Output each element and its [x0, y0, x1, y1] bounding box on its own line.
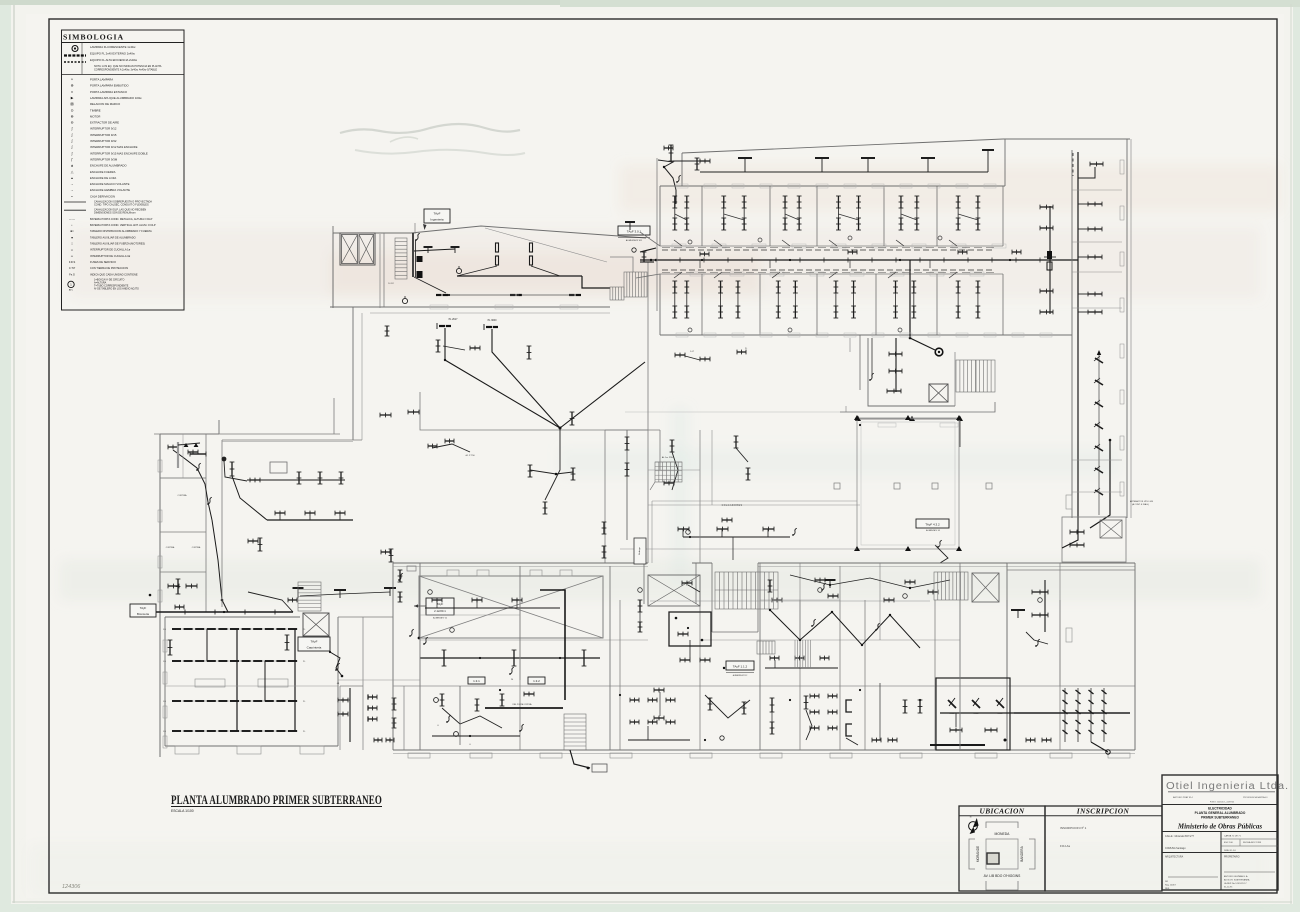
mid column lamps low	[603, 522, 605, 534]
svg-text:ATC: ATC	[69, 288, 74, 291]
svg-text:INTERRUPTOR 9/12 MAS ENCHUFE: INTERRUPTOR 9/12 MAS ENCHUFE	[90, 145, 138, 149]
workshop elevator	[303, 613, 329, 636]
bottom band left lamps	[399, 570, 401, 582]
mid room switches	[399, 573, 403, 580]
svg-text:AV. LIB BDO O'HIGGINS: AV. LIB BDO O'HIGGINS	[984, 874, 1022, 878]
svg-text:SIMBOLOGIA: SIMBOLOGIA	[63, 33, 124, 42]
wing corridor drop wires	[699, 260, 701, 268]
title block outline	[1162, 775, 1278, 890]
svg-text:PL: PL	[745, 348, 747, 350]
svg-text:EQUIPO FL 2x40 EXTERNO 2x40w: EQUIPO FL 2x40 EXTERNO 2x40w	[90, 52, 136, 56]
br lower pair lamps	[1026, 739, 1035, 741]
room 800 lamps low	[805, 696, 807, 709]
upper-left block top wall	[411, 226, 646, 238]
bottom band corridor wall	[393, 562, 648, 564]
left corridor feeder	[152, 611, 293, 613]
upper rooms circled numbers	[688, 240, 692, 244]
room B bottom pair	[374, 739, 382, 741]
strip wall y601	[650, 600, 930, 602]
rooms 760-960 upper wires	[770, 610, 920, 648]
svg-text:ENCHUFE HEMBRA VOLANTE: ENCHUFE HEMBRA VOLANTE	[90, 188, 130, 192]
svg-text:P.L: P.L	[303, 701, 305, 703]
annex motor circle	[935, 348, 943, 356]
corridor double dash upper	[662, 247, 994, 249]
svg-text:▶: ▶	[71, 96, 74, 100]
legend box SIMBOLOGIA	[62, 30, 185, 310]
svg-text:▲: ▲	[70, 164, 73, 168]
svg-text:INTERRUPTOR 9/3M: INTERRUPTOR 9/3M	[90, 157, 118, 161]
annex lamp wire	[895, 338, 897, 392]
svg-text:⊖: ⊖	[71, 121, 74, 125]
corridor lamp marks	[184, 610, 186, 615]
svg-text:CALLE : Morandé 80/71/77: CALLE : Morandé 80/71/77	[1165, 835, 1195, 838]
svg-text:P.L: P.L	[303, 629, 305, 631]
svg-text:PLANTA GENERAL ALUMBRADO: PLANTA GENERAL ALUMBRADO	[1195, 811, 1246, 815]
right column lamp string	[1095, 358, 1103, 363]
rooms mid lamps	[815, 579, 825, 581]
wire net mid	[790, 575, 950, 588]
upper-left stairs	[395, 238, 407, 279]
svg-text:31-12-95: 31-12-95	[1224, 887, 1233, 889]
legend lamp circle symbol	[72, 46, 78, 52]
center-left feeder	[267, 519, 353, 521]
svg-text:→: →	[70, 182, 73, 186]
block lamp dark pairs	[436, 294, 442, 296]
annex drop wire	[910, 260, 935, 350]
right wing low walls	[1007, 562, 1060, 564]
mid room lamp vertical	[528, 346, 530, 359]
left wing inner wall	[205, 434, 207, 612]
svg-text:EXTRACTOR DE AIRE: EXTRACTOR DE AIRE	[90, 121, 119, 125]
upper band lamps	[674, 196, 676, 208]
svg-text:TAyF 3.0.1: TAyF 3.0.1	[627, 229, 642, 233]
bodega vertical label	[634, 538, 646, 564]
mid room lamp right	[571, 412, 573, 425]
left of wing small syms	[625, 221, 635, 223]
svg-text:TAyF: TAyF	[437, 602, 444, 606]
under-hall lamp 3	[583, 650, 585, 666]
center-left small rect	[270, 462, 287, 473]
svg-text:TAyF: TAyF	[140, 606, 147, 610]
top strip lamps	[738, 157, 752, 159]
right block outline	[1004, 139, 1006, 186]
legend canalizacion entries	[64, 201, 86, 203]
svg-text:⊗: ⊗	[71, 114, 74, 118]
wing left end cluster	[670, 145, 672, 161]
svg-text:ENCHUFE DE ALUMBRADO: ENCHUFE DE ALUMBRADO	[90, 164, 127, 168]
hall top pilaster marks	[447, 570, 459, 576]
svg-text:■□: ■□	[70, 230, 74, 233]
map bottom bracket	[986, 881, 1018, 890]
mid rooms circled numbers	[428, 590, 433, 595]
scatter lamp pair	[428, 445, 437, 447]
workshop fixture chain 2	[172, 660, 298, 662]
block circle low	[402, 298, 407, 303]
left lower rooms top walls	[338, 679, 420, 681]
svg-text:ARQUITECTURA: ARQUITECTURA	[1165, 856, 1184, 859]
north wing corridor walls	[660, 245, 1003, 247]
svg-text:INTERRUPTOR DE CUCHILLA 3ø: INTERRUPTOR DE CUCHILLA 3ø	[90, 254, 131, 258]
north wing main outline	[660, 185, 1005, 187]
svg-text:TAyF 1.1.2: TAyF 1.1.2	[733, 664, 748, 668]
taller room circled syms	[434, 698, 439, 703]
svg-text:ƒ: ƒ	[71, 157, 73, 161]
workshop fixture chain 3	[172, 700, 298, 702]
right connector wires	[1062, 518, 1078, 548]
svg-text:△: △	[71, 170, 74, 174]
room A wire	[349, 688, 351, 742]
pencil smudge 2	[355, 150, 525, 155]
room 865 vertical wire	[879, 683, 881, 740]
north wing top strip wire	[700, 171, 988, 173]
under-hall lamp 2	[513, 650, 515, 666]
wing left slant wall	[640, 232, 660, 246]
br upper room wire	[1044, 580, 1046, 632]
colgadores lamp 1	[678, 528, 689, 530]
map right bracket	[1029, 839, 1035, 869]
compass	[969, 822, 978, 831]
svg-text:MONEDA: MONEDA	[995, 832, 1011, 836]
below-wing lamp cluster	[675, 354, 685, 356]
mid stairs lower hatch	[757, 641, 775, 654]
corridor dashed lines	[662, 249, 994, 251]
upper of corridor lamps	[334, 589, 346, 591]
svg-text:DR: DR	[1165, 881, 1169, 883]
annex stairs	[956, 360, 995, 392]
workshop fixture chain 1	[172, 628, 298, 630]
pencil smudge 3	[390, 137, 418, 142]
wing room wires upper	[674, 240, 682, 246]
left wing wire low	[212, 520, 228, 612]
svg-text:AL 1er PISO: AL 1er PISO	[662, 456, 674, 459]
svg-text:PORTA LAMPARA EMBUTIDO: PORTA LAMPARA EMBUTIDO	[90, 84, 129, 88]
svg-text:Ingenieria: Ingenieria	[430, 218, 444, 222]
left wing lamps r2	[168, 585, 179, 587]
wing annex left wall lower	[845, 406, 847, 412]
wing bottom pilasters	[676, 333, 688, 337]
left wing feeder lamps	[298, 472, 300, 484]
svg-text:P.L: P.L	[303, 731, 305, 733]
colgadores lamp 3	[763, 528, 774, 530]
br block lamps	[1070, 531, 1084, 533]
svg-text:UBICACION: UBICACION	[979, 807, 1024, 816]
svg-text:Otiel Ingenieria Ltda.: Otiel Ingenieria Ltda.	[1166, 781, 1289, 792]
corridor upper symbols	[248, 592, 293, 612]
wing top pilasters corridor	[672, 244, 686, 248]
br lower feeder	[1014, 712, 1130, 714]
block L wall right	[610, 257, 633, 272]
rooms separator	[392, 563, 394, 750]
ramp hall with X	[419, 576, 603, 638]
upper-left elevator double	[340, 233, 375, 265]
left wing wall extension	[221, 560, 223, 607]
room 1050 lamps	[1040, 206, 1053, 208]
junction dots scatter	[701, 259, 703, 261]
svg-text:CORRESPONDIENTE A 2x40w, 3x40w: CORRESPONDIENTE A 2x40w, 3x40w, 4x40w S/…	[94, 68, 157, 71]
bottom band upper-mid walls	[519, 566, 521, 680]
mid stairs down	[564, 714, 586, 750]
second core elevator	[972, 573, 999, 602]
svg-text:INDICA QUE CADA UNIDAD CONTIEN: INDICA QUE CADA UNIDAD CONTIENE	[90, 272, 138, 276]
courtyard right riser	[959, 419, 961, 447]
rooms 760-960 upper switches	[812, 619, 816, 626]
workshop top wall extension	[363, 616, 393, 618]
svg-text:▪: ▪	[72, 224, 73, 227]
left wing feeder 480	[224, 461, 247, 481]
svg-text:ʃ: ʃ	[71, 127, 73, 131]
svg-text:Nº DE TABLERO EN LOS ANEXO ADJ: Nº DE TABLERO EN LOS ANEXO ADJTO	[94, 286, 139, 290]
room 770 lamps low	[771, 698, 773, 712]
paper edge lines	[13, 5, 15, 903]
net junction dots	[799, 639, 801, 641]
workshop lamps vertical	[169, 640, 171, 655]
annex bottom dots	[855, 416, 861, 421]
block right stairs hatch	[624, 272, 647, 297]
bottom rooms top wall	[393, 685, 1135, 687]
svg-text:x: x	[71, 90, 73, 94]
mid room cluster wires	[425, 607, 560, 609]
workshop chain risers	[236, 629, 238, 731]
title block divider 1	[1162, 804, 1278, 806]
label TAyF 3.0.1	[618, 226, 650, 235]
bottom band divider extension	[519, 566, 521, 600]
right block lamps	[1088, 203, 1102, 205]
center-left lamps	[275, 512, 285, 514]
strip lamps	[682, 582, 692, 584]
annex dot wire	[858, 418, 960, 420]
below-wall wire	[570, 750, 590, 768]
dark room below elevator	[669, 612, 711, 646]
taller room lamps	[441, 694, 443, 706]
upper-left block inner slant	[485, 228, 607, 262]
svg-text:PL 3000: PL 3000	[488, 319, 497, 322]
courtyard inner rect	[861, 422, 955, 545]
svg-text:COND. TIPO CALSEC, CONDUIT O F: COND. TIPO CALSEC, CONDUIT O FLEXIBLES	[94, 203, 149, 206]
svg-text:ʃ: ʃ	[71, 133, 73, 137]
room 700 wires	[705, 695, 750, 718]
bottom band mid wall	[420, 639, 648, 641]
right block top lamp wire	[1078, 167, 1095, 178]
workshop stairs	[298, 582, 321, 611]
colgadores lamp 2	[717, 528, 728, 530]
lower band room dividers	[701, 274, 703, 335]
svg-text:DIMENSIONES SON DE REALMxxm: DIMENSIONES SON DE REALMxxm	[94, 212, 136, 215]
column marker squares	[834, 483, 840, 489]
label 1.3.1	[468, 677, 485, 684]
upper-left block inner walls	[379, 234, 381, 308]
svg-text:ʃ: ʃ	[71, 145, 73, 149]
left wing enchufe triangles	[184, 443, 189, 447]
room 650 bottom lamps	[654, 689, 664, 691]
block bottom pilasters	[430, 305, 448, 309]
annex left wall	[859, 335, 861, 390]
center-left wire	[232, 476, 267, 520]
svg-text:COLGADORES: COLGADORES	[722, 504, 743, 507]
left block top wall long	[154, 433, 340, 435]
mid column wires	[604, 430, 606, 563]
dark room bottom bar	[930, 744, 985, 746]
svg-text:ALIMENTA Nº 43: ALIMENTA Nº 43	[926, 529, 940, 532]
middle rooms 700-860	[711, 430, 713, 505]
bottom wall pilasters	[408, 753, 430, 758]
svg-text:INTERRUPTOR 9/32: INTERRUPTOR 9/32	[90, 139, 117, 143]
wing left entry marks	[640, 248, 656, 252]
rooms 760-840 mid row lamps	[770, 657, 779, 659]
svg-text:TIMBRE: TIMBRE	[90, 108, 101, 112]
svg-text:REF.: REF.	[1165, 888, 1170, 890]
room 620 wire	[628, 739, 690, 741]
colgadores switch	[793, 528, 797, 535]
workshop fixture chain 4	[172, 730, 298, 732]
under-hall switch	[510, 667, 514, 674]
svg-text:CAJA DERIVACION: CAJA DERIVACION	[90, 194, 115, 198]
annex stairwell walls	[954, 352, 956, 406]
corridor junction symbols	[700, 253, 709, 255]
block circled symbol	[456, 268, 461, 273]
stairs to first floor	[655, 462, 682, 482]
under-hall lamp 1	[443, 650, 445, 666]
left wing lamp bar long	[190, 453, 206, 455]
map building square	[987, 853, 999, 864]
workshop left pilasters	[163, 640, 167, 652]
courtyard corner-dot rect	[857, 418, 959, 549]
br lower room chains	[1064, 688, 1066, 742]
stain band middle	[560, 448, 1120, 476]
rooms 760-960 mid walls	[799, 563, 801, 640]
svg-text:FONO: 2225013 - 2228745: FONO: 2225013 - 2228745	[1210, 802, 1235, 804]
svg-text:CORTINA: CORTINA	[192, 546, 201, 549]
svg-text:Fe.G: Fe.G	[69, 272, 75, 276]
bottom right block outline	[1007, 569, 1135, 571]
second core stairs	[934, 572, 968, 600]
svg-text:COMUNA Santiago: COMUNA Santiago	[1165, 847, 1186, 850]
svg-text:PROVIDENCIA SANTIAGO: PROVIDENCIA SANTIAGO	[1243, 796, 1268, 799]
left wing lamps r1	[168, 446, 178, 448]
room 1050 riser wire	[1049, 206, 1051, 314]
left lower rooms walls	[339, 686, 341, 750]
br lower diag wire	[1091, 742, 1108, 752]
svg-text:ALIMENTA Nº 112: ALIMENTA Nº 112	[733, 674, 748, 677]
left wing timbre circle	[222, 457, 227, 462]
label 1.3.2	[528, 677, 545, 684]
svg-text:ELECTRICIDAD: ELECTRICIDAD	[1208, 807, 1232, 811]
wing annex outline	[868, 338, 955, 406]
svg-text:MORANDE: MORANDE	[976, 846, 980, 862]
annex left wire	[871, 338, 873, 378]
svg-text:RELACION DE MARCO: RELACION DE MARCO	[90, 102, 121, 106]
map left bracket	[969, 839, 975, 869]
svg-text:LAMPARA APLIQUE ALUMBRADO 100w: LAMPARA APLIQUE ALUMBRADO 100w	[90, 96, 143, 100]
svg-text:FUSES DE SERVICIO: FUSES DE SERVICIO	[90, 260, 116, 264]
scatter lamps mid	[529, 465, 531, 477]
svg-text:INSCRIPCION: INSCRIPCION	[1076, 807, 1130, 816]
dark room lamps2	[950, 729, 962, 731]
courtyard bottom wire	[620, 548, 857, 550]
svg-text:PL 2617: PL 2617	[449, 318, 458, 321]
left wing pencil bundle	[177, 442, 179, 468]
wing left outer wall	[656, 158, 658, 311]
svg-text:RIEL PORTA CORTINA: RIEL PORTA CORTINA	[513, 703, 533, 706]
svg-text:ESCALA 1/100: ESCALA 1/100	[171, 809, 194, 813]
svg-text:LA REP. No 9.981.357-7: LA REP. No 9.981.357-7	[1224, 882, 1247, 885]
svg-text:⊙: ⊙	[71, 108, 74, 112]
corridor feeder wire	[662, 259, 1078, 261]
upper-left block left wall	[332, 226, 334, 308]
annex elevator	[929, 384, 948, 402]
label TAyF 4.3.2	[916, 519, 949, 528]
legend dashed bar symbol	[64, 61, 86, 63]
riser tableros	[417, 256, 423, 262]
under-hall feeder wire	[420, 657, 600, 659]
al1er crosshatch	[655, 461, 682, 463]
right block feeder	[1077, 152, 1079, 518]
br upper room left lamp	[1011, 609, 1025, 611]
top edge shading	[0, 0, 1300, 5]
room 800-840 I-beam grid	[810, 695, 819, 697]
right wall door bumps	[1066, 495, 1072, 509]
svg-text:→: →	[70, 188, 73, 192]
svg-text:(A CONT. E DIAG.): (A CONT. E DIAG.)	[1132, 503, 1149, 506]
bottom outer wall	[393, 749, 1135, 751]
UBICACION box	[959, 806, 1045, 891]
riser switch	[416, 233, 420, 240]
wing bottom small syms	[737, 351, 746, 353]
dark room feeder	[940, 712, 1130, 714]
mid room dark L wire	[540, 590, 565, 700]
room B E-symbols	[368, 696, 377, 698]
upper mid wire from block	[545, 428, 560, 500]
dark room angled lamps	[948, 700, 956, 708]
bottom room 620 top lamps	[639, 600, 641, 612]
svg-text:PORTA LAMPARA: PORTA LAMPARA	[90, 78, 113, 82]
wing room wires lower	[674, 272, 682, 278]
svg-text:INTERRUPTOR 9/15 MAS ENCHUFE D: INTERRUPTOR 9/15 MAS ENCHUFE DOBLE	[90, 151, 148, 155]
stair hall walls	[711, 563, 713, 632]
colgadores mid stem	[732, 537, 734, 560]
block wire feeder	[457, 275, 582, 277]
mid room bottom lamps	[380, 414, 391, 416]
svg-text:ARTURO PRAT 814: ARTURO PRAT 814	[1173, 796, 1193, 799]
svg-text:TAyF: TAyF	[311, 640, 318, 644]
label TAyF Carpinteria	[298, 637, 330, 651]
mid room lamp PL2	[486, 326, 492, 328]
upper band room dividers	[701, 186, 703, 246]
svg-text:×: ×	[71, 78, 73, 82]
legend circuit number symbol	[68, 281, 74, 287]
svg-text:BANDERA: BANDERA	[1020, 845, 1024, 861]
pencil smudge 1	[340, 124, 520, 133]
svg-text:ALIMENTA Nº 611: ALIMENTA Nº 611	[626, 239, 643, 242]
svg-text:DIBUJO 4.6: DIBUJO 4.6	[1224, 850, 1236, 852]
label TAyF Bronceria	[130, 604, 156, 617]
svg-text:PLANTA ALUMBRADO PRIMER SUBTER: PLANTA ALUMBRADO PRIMER SUBTERRANEO	[171, 793, 382, 807]
svg-text:ANTONIO GUZMAN E. A.: ANTONIO GUZMAN E. A.	[1224, 875, 1248, 878]
vent hatch bundle	[794, 640, 796, 668]
svg-text:1.3.2: 1.3.2	[533, 679, 540, 683]
courtyard switch wire	[935, 545, 948, 563]
top right wing door marks	[1120, 160, 1124, 174]
svg-text:CORTINA: CORTINA	[166, 546, 175, 549]
bottom scatter dots	[499, 689, 501, 691]
svg-text:P.L: P.L	[303, 661, 305, 663]
wall y501	[652, 500, 857, 502]
svg-text:EQUIPO FL ALTA EFICIENCIA 2x40: EQUIPO FL ALTA EFICIENCIA 2x40w	[90, 58, 138, 62]
br block 517 outline	[1062, 517, 1126, 562]
top strip left lamp	[696, 158, 698, 170]
riel porta cortina	[485, 707, 563, 709]
svg-text:44. P 750: 44. P 750	[465, 455, 475, 457]
room 840 wire	[846, 738, 858, 745]
